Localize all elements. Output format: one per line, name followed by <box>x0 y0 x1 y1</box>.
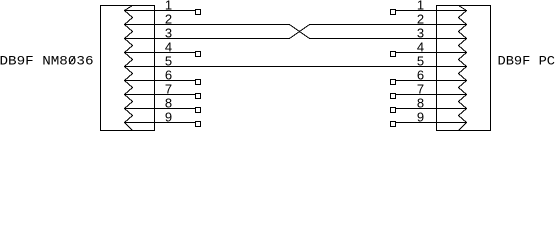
svg-text:8: 8 <box>417 95 424 110</box>
svg-text:4: 4 <box>165 39 172 54</box>
svg-text:5: 5 <box>165 53 172 68</box>
svg-text:3: 3 <box>417 25 424 40</box>
svg-text:2: 2 <box>165 11 172 26</box>
svg-text:5: 5 <box>417 53 424 68</box>
svg-text:9: 9 <box>165 109 172 124</box>
svg-text:DB9F PC: DB9F PC <box>498 54 556 69</box>
svg-text:8: 8 <box>165 95 172 110</box>
svg-text:6: 6 <box>417 67 424 82</box>
svg-text:7: 7 <box>165 81 172 96</box>
svg-text:4: 4 <box>417 39 424 54</box>
svg-text:6: 6 <box>165 67 172 82</box>
svg-text:DB9F NM8036: DB9F NM8036 <box>0 54 94 69</box>
svg-text:2: 2 <box>417 11 424 26</box>
svg-text:7: 7 <box>417 81 424 96</box>
svg-text:3: 3 <box>165 25 172 40</box>
svg-text:9: 9 <box>417 109 424 124</box>
